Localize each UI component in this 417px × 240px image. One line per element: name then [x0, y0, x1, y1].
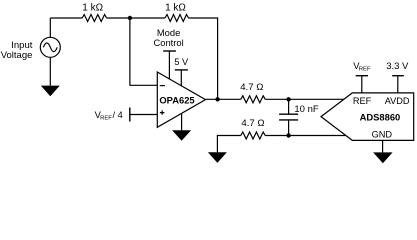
pin REF supply wire [361, 76, 363, 93]
pin GND stub of ADC [382, 140, 384, 152]
svg-text:REF: REF [100, 115, 112, 121]
capacitor C1 top lead [288, 99, 290, 114]
ground below R4 branch [208, 152, 227, 163]
ground below source [41, 86, 60, 97]
wire node A down to inverting input [130, 18, 157, 85]
wire feedback from R2 down to output node [189, 18, 218, 99]
voltage source V1 bottom lead [49, 57, 51, 85]
node A junction dot [128, 16, 132, 20]
wire VREF/4 to non-inverting input [130, 114, 158, 116]
svg-text:REF: REF [359, 67, 371, 73]
terminal VREF bar [356, 75, 368, 77]
op-amp U1 [157, 72, 205, 127]
resistor R4 [241, 132, 265, 139]
terminal VREF/4 bar [129, 108, 131, 122]
svg-text:/ 4: / 4 [113, 110, 123, 120]
pin ground stub of op-amp [181, 113, 183, 130]
wire op-amp output to R3 [206, 98, 241, 100]
node capacitor top junction dot [286, 97, 290, 101]
voltage source V1 top lead [49, 18, 51, 37]
svg-text:GND: GND [372, 130, 393, 140]
wire node A to R2 [130, 17, 165, 19]
wire R1 to node A [107, 17, 130, 19]
svg-text:Voltage: Voltage [1, 50, 33, 61]
svg-text:1 kΩ: 1 kΩ [165, 3, 186, 14]
terminal 3.3V bar [392, 75, 404, 77]
wire R3 to ADC positive input [265, 98, 346, 100]
wire ground up to R4 [217, 136, 240, 153]
ground below op-amp [172, 130, 191, 141]
wire top rail from source to R1 [50, 17, 82, 19]
capacitor C1 [279, 114, 298, 120]
pin 5V supply into op-amp [180, 70, 182, 86]
node output junction dot [215, 97, 219, 101]
svg-text:5 V: 5 V [174, 57, 189, 67]
wire R4 to ADC negative input [265, 135, 346, 137]
voltage source V1 [40, 37, 60, 57]
node capacitor bottom junction dot [286, 133, 290, 137]
svg-text:3.3 V: 3.3 V [386, 61, 409, 72]
pin AVDD supply wire [397, 76, 399, 93]
terminal Mode Control bar [163, 50, 176, 52]
resistor R2 [165, 15, 189, 22]
svg-text:REF: REF [353, 96, 372, 106]
svg-text:OPA625: OPA625 [159, 95, 194, 106]
svg-text:10 nF: 10 nF [294, 104, 318, 115]
op-amp minus sign [160, 85, 165, 87]
ADC U2 body [321, 93, 414, 140]
svg-text:ADS8860: ADS8860 [360, 112, 401, 123]
resistor R3 [241, 96, 265, 103]
capacitor C1 bottom lead [288, 120, 290, 136]
svg-text:AVDD: AVDD [385, 96, 410, 106]
svg-text:Control: Control [153, 37, 183, 48]
terminal 5V bar [175, 69, 188, 71]
ground below ADC [373, 152, 393, 163]
svg-text:4.7 Ω: 4.7 Ω [241, 118, 264, 129]
op-amp plus sign [160, 110, 165, 114]
svg-text:4.7 Ω: 4.7 Ω [240, 82, 263, 93]
svg-text:1 kΩ: 1 kΩ [82, 3, 103, 14]
pin Mode Control into op-amp [168, 51, 170, 79]
resistor R1 [82, 15, 106, 22]
